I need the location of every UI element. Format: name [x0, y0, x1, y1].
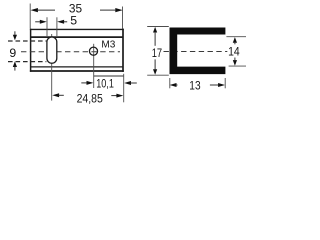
dimension 10,1: left arrow (outside, pointing right): [81, 82, 88, 84]
dimension 9: lower arrow (pointing up): [13, 61, 17, 67]
svg-text:M3: M3: [101, 39, 115, 50]
dimension 17: bottom extension line: [147, 74, 169, 76]
dimension 14: lower arrow (pointing down): [233, 60, 237, 66]
dimension 14: bottom extension line: [229, 65, 246, 67]
svg-text:10,1: 10,1: [96, 77, 114, 91]
dimension 17: lower arrow (pointing down): [153, 69, 157, 75]
dimension 13: left arrow (pointing left): [170, 83, 177, 87]
dimension 5: right extension line: [56, 17, 58, 36]
top view outline: right edge: [122, 29, 124, 72]
hidden line (dashed) upper, slot region: [8, 40, 46, 42]
dimension 13: right extension line: [224, 78, 226, 88]
dimension 9: upper arrow (pointing down): [14, 31, 16, 35]
M3 hole axis (vertical, extends to 10,1 dimension): [93, 44, 95, 88]
dimension 35: right arrow: [115, 8, 122, 12]
dimension 10,1: dimension line: [94, 75, 124, 77]
svg-text:24,85: 24,85: [77, 91, 103, 105]
dimension 24,85: right arrow (pointing right at extension line): [111, 95, 118, 97]
dimension 14: top extension line: [226, 36, 246, 38]
slot (obround): [47, 37, 57, 63]
top view outline: left edge: [30, 29, 32, 72]
top view inner fold line (lower): [30, 66, 123, 68]
side view U-channel profile (solid section): [170, 28, 226, 75]
svg-text:13: 13: [189, 79, 200, 93]
svg-text:5: 5: [70, 14, 77, 28]
horizontal centerline through part and M3 hole: [21, 51, 120, 53]
svg-text:17: 17: [152, 46, 163, 60]
dimension 5: right arrow (outside, pointing left): [57, 20, 64, 24]
top view outline: bottom outer edge: [30, 70, 124, 72]
dimension 5: left extension line: [46, 17, 48, 36]
dimension 10,1: right arrow (outside, pointing left): [124, 81, 131, 85]
dimension 5: left arrow (outside, pointing right): [35, 21, 40, 23]
hidden line (dashed) lower, slot region: [8, 61, 46, 63]
dimension 14: upper arrow (pointing up): [233, 37, 237, 43]
dimension 17: top extension line: [147, 26, 169, 28]
dimension 35: left extension line: [29, 4, 31, 29]
svg-text:14: 14: [228, 45, 240, 59]
hole M3: [89, 47, 97, 55]
dimension 17: upper arrow (pointing up): [153, 27, 157, 33]
dimension 13: left extension line: [169, 78, 171, 88]
dimension 10,1: right extension line: [123, 74, 125, 103]
top view inner fold line (upper): [30, 36, 123, 38]
dimension 35: left arrow: [31, 8, 38, 12]
dimension 24,85: left arrow (pointing left at slot axis): [52, 93, 59, 97]
dimension 35: right extension line: [122, 7, 124, 29]
side view centerline: [164, 51, 228, 53]
top view outline: top outer edge: [30, 28, 124, 30]
svg-text:9: 9: [9, 46, 16, 60]
slot centerline axis (vertical, extends to 24,85 dimension): [51, 34, 53, 101]
dimension 13: right arrow (pointing right): [210, 84, 219, 86]
